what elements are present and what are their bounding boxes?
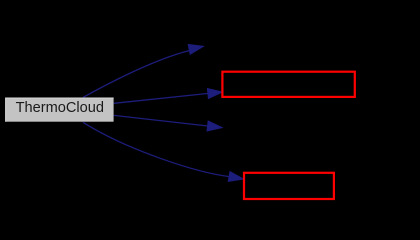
edge ThermoCloud -> node A (top, invisible) <box>83 44 203 97</box>
edge ThermoCloud -> red node 2 (bottom) <box>83 122 243 181</box>
red node 2 (truncated dependency, black fill) <box>244 173 334 199</box>
edge ThermoCloud -> node B (middle, invisible) <box>114 115 222 131</box>
edge ThermoCloud -> red node 1 <box>114 89 223 104</box>
svg-text:ThermoCloud: ThermoCloud <box>16 100 104 116</box>
red node 1 (truncated dependency, black fill) <box>222 72 354 97</box>
node ThermoCloud (current node, grey fill) <box>6 98 114 122</box>
